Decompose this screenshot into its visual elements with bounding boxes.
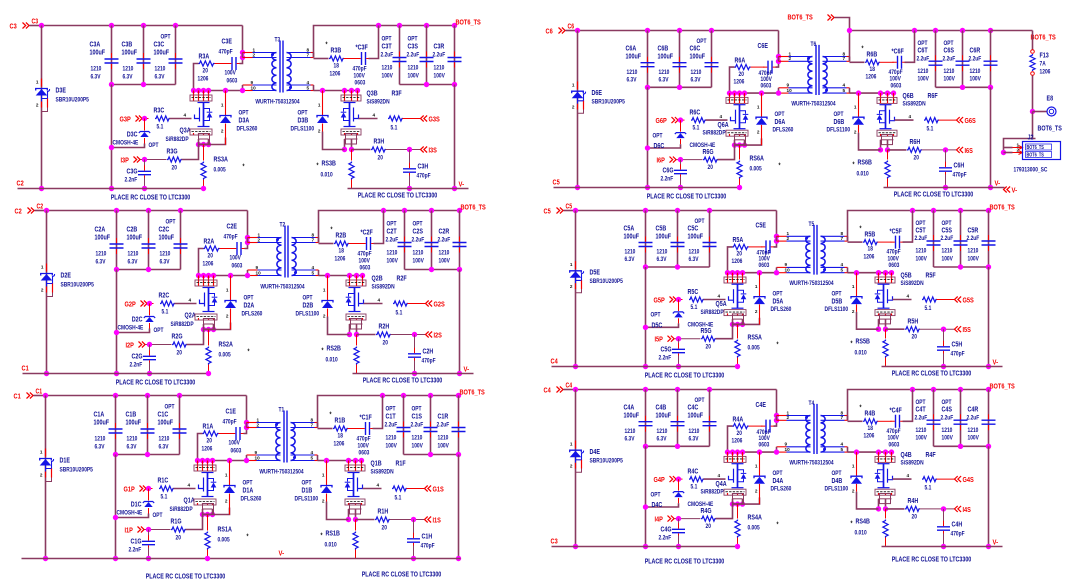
svg-text:1210: 1210: [413, 250, 424, 257]
svg-text:1210: 1210: [942, 248, 953, 255]
svg-text:2: 2: [789, 56, 792, 62]
svg-text:2: 2: [221, 129, 224, 135]
svg-text:C3S: C3S: [408, 42, 419, 51]
fuse F13 7A 1206: [1032, 31, 1034, 50]
svg-text:I4P: I4P: [655, 515, 663, 524]
svg-text:I3P: I3P: [121, 156, 129, 165]
svg-text:SiS892DN: SiS892DN: [901, 280, 924, 287]
svg-text:I6S: I6S: [965, 146, 973, 155]
svg-text:100uF: 100uF: [658, 51, 674, 60]
transistor Q5B SiS892DN: [876, 270, 881, 275]
transistor Q3A SiR882DP: [191, 88, 196, 93]
svg-text:C5T: C5T: [916, 226, 927, 235]
svg-text:PLACE RC CLOSE TO LTC3300: PLACE RC CLOSE TO LTC3300: [894, 190, 974, 199]
svg-text:DFLS260: DFLS260: [771, 306, 792, 313]
svg-text:G3S: G3S: [429, 115, 440, 124]
wire C2 top bus: [47, 210, 248, 212]
net entry G6S: [957, 117, 964, 123]
svg-text:I1S: I1S: [433, 516, 441, 525]
svg-text:DFLS260: DFLS260: [241, 496, 262, 503]
wire snubber return: [905, 31, 915, 63]
capacitor C5F 470pF 100V 0603: [878, 241, 892, 243]
diode D4A DFLS260 OPT: [757, 449, 762, 454]
node source junctions: [733, 318, 743, 320]
wire snubber return: [373, 396, 383, 429]
svg-text:D5E: D5E: [590, 268, 601, 277]
svg-text:C5R: C5R: [968, 226, 979, 235]
svg-text:R5C: R5C: [688, 287, 699, 296]
wire gate: [706, 119, 728, 121]
svg-text:C5E: C5E: [756, 221, 767, 230]
svg-text:RS3B: RS3B: [322, 159, 336, 168]
resistor RS6B 0.010: [887, 150, 889, 160]
svg-text:D3C: D3C: [127, 130, 138, 139]
resistor R5G 20: [701, 336, 716, 341]
svg-text:*C2F: *C2F: [361, 228, 374, 237]
svg-text:1210: 1210: [95, 436, 106, 443]
net entry I6S: [957, 147, 964, 153]
svg-text:100uF: 100uF: [122, 48, 138, 57]
resistor R4A 20 1206: [728, 426, 733, 452]
svg-text:470pF: 470pF: [357, 436, 371, 443]
wire secondary switch node: [848, 451, 892, 453]
wire gate: [704, 299, 726, 301]
svg-text:9: 9: [785, 262, 788, 268]
wire cap bottom rail: [646, 266, 710, 268]
svg-text:R3A: R3A: [199, 52, 210, 61]
capacitor C3S 2.2uF OPT: [426, 26, 428, 85]
diode D6E SBR10U200P5: [577, 82, 579, 90]
svg-text:6.3V: 6.3V: [657, 256, 667, 263]
svg-text:*: *: [321, 533, 323, 540]
capacitor C3H 470pF: [409, 150, 411, 167]
wire right rail to V-: [454, 85, 456, 189]
wire source to D2A: [214, 323, 231, 330]
svg-text:Q6A: Q6A: [718, 120, 730, 129]
svg-text:0603: 0603: [759, 441, 770, 448]
svg-text:WURTH-750312504: WURTH-750312504: [789, 280, 833, 287]
svg-text:470pF: 470pF: [358, 251, 372, 258]
svg-text:I5S: I5S: [963, 325, 971, 334]
svg-text:C1R: C1R: [438, 412, 449, 421]
capacitor C2B 100uF: [148, 211, 150, 270]
wire right rail to V-: [988, 446, 990, 546]
svg-text:*C1F: *C1F: [360, 413, 373, 422]
svg-text:2.2uF: 2.2uF: [381, 52, 394, 59]
svg-text:*: *: [326, 42, 328, 49]
wire snubber to primary top: [244, 423, 247, 434]
svg-text:9: 9: [251, 80, 254, 86]
svg-text:20: 20: [737, 251, 743, 258]
svg-text:R2F: R2F: [397, 274, 408, 283]
wire left rail: [575, 211, 577, 367]
svg-text:SiR882DP: SiR882DP: [166, 136, 190, 143]
resistor R4F 5.1: [893, 478, 912, 480]
svg-text:C1T: C1T: [386, 412, 397, 421]
diode D1E SBR10U200P5: [45, 449, 47, 457]
transistor Q1A SiR882DP: [195, 458, 200, 463]
svg-text:R5A: R5A: [733, 235, 744, 244]
resistor R6C 5.1: [691, 118, 706, 123]
svg-text:C4S: C4S: [942, 405, 953, 414]
resistor RS1A 0.005: [207, 515, 209, 531]
resistor RS4A 0.005: [737, 504, 739, 518]
svg-text:*: *: [860, 405, 862, 412]
svg-text:20: 20: [706, 343, 712, 350]
svg-text:5.1: 5.1: [693, 125, 700, 132]
svg-text:100V: 100V: [382, 73, 394, 80]
svg-text:0.010: 0.010: [326, 357, 338, 364]
svg-text:1210: 1210: [657, 428, 668, 435]
svg-text:100V: 100V: [386, 443, 398, 450]
svg-text:0.005: 0.005: [748, 345, 760, 352]
svg-text:100V: 100V: [944, 76, 956, 83]
wire primary switch node: [199, 275, 248, 277]
capacitor C5R 2.2uF: [988, 211, 990, 268]
svg-text:5.1: 5.1: [162, 309, 169, 316]
svg-text:D4E: D4E: [590, 447, 601, 456]
svg-text:1206: 1206: [334, 441, 345, 448]
svg-text:2: 2: [852, 309, 855, 315]
capacitor C3F 470pF 100V 0603: [344, 58, 358, 60]
svg-text:2: 2: [322, 499, 325, 505]
wire output cap rail: [400, 84, 455, 86]
resistor R2C 5.1: [160, 301, 175, 306]
svg-text:2.2uF: 2.2uF: [407, 52, 420, 59]
svg-text:D5A: D5A: [773, 296, 784, 305]
wire secondary switch node: [850, 92, 894, 94]
svg-text:C4H: C4H: [952, 520, 963, 529]
svg-text:1210: 1210: [412, 435, 423, 442]
svg-text:6.3V: 6.3V: [627, 77, 637, 84]
svg-text:1210: 1210: [382, 65, 393, 72]
svg-text:5: 5: [312, 270, 315, 276]
svg-text:470pF: 470pF: [353, 66, 367, 73]
capacitor C5B 100uF: [677, 211, 679, 268]
svg-text:Q6B: Q6B: [903, 91, 914, 100]
svg-text:20: 20: [706, 523, 712, 530]
capacitor C4S 2.2uF OPT: [960, 390, 962, 447]
svg-text:4: 4: [189, 298, 192, 304]
svg-text:G2S: G2S: [434, 300, 445, 309]
wire BOT6_TS bus: [848, 211, 989, 242]
svg-text:5.1: 5.1: [161, 494, 168, 501]
resistor R2G 20: [172, 342, 187, 347]
wire gate: [174, 488, 196, 490]
svg-text:1210: 1210: [155, 66, 166, 73]
svg-text:10: 10: [255, 455, 260, 461]
net entry I3S: [421, 147, 428, 153]
svg-text:C1E: C1E: [226, 407, 237, 416]
svg-text:470pF: 470pF: [951, 351, 965, 358]
capacitor C5E 470pF 100V 0603: [749, 246, 763, 248]
svg-text:*: *: [247, 534, 249, 541]
resistor R3G 20: [167, 157, 182, 162]
svg-text:R1C: R1C: [158, 476, 169, 485]
net entry I2S: [426, 332, 433, 338]
svg-text:F13: F13: [1040, 51, 1049, 60]
svg-text:6.3V: 6.3V: [160, 259, 170, 266]
wire right rail to V-: [458, 455, 460, 559]
svg-text:Q4A: Q4A: [716, 479, 728, 488]
svg-text:20: 20: [382, 525, 388, 532]
wire BOT6_TS bus: [314, 26, 455, 58]
svg-text:0603: 0603: [761, 82, 772, 89]
net entry I1S: [425, 517, 432, 523]
svg-text:10: 10: [251, 85, 256, 91]
svg-text:RS4B: RS4B: [856, 517, 870, 526]
svg-text:1: 1: [41, 265, 44, 271]
wire left rail: [575, 390, 577, 547]
svg-text:C6H: C6H: [954, 161, 965, 170]
svg-text:*: *: [851, 521, 853, 528]
svg-text:1210: 1210: [689, 428, 700, 435]
transistor Q4A SiR882DP: [725, 449, 730, 454]
wire C3 bottom bus: [552, 546, 738, 548]
svg-text:100uF: 100uF: [159, 233, 175, 242]
capacitor C3E 470pF 100V 0603: [215, 63, 229, 65]
wire V- bottom bus: [22, 558, 461, 560]
svg-text:*C5F: *C5F: [890, 227, 903, 236]
svg-text:100uF: 100uF: [626, 51, 642, 60]
resistor R6H 20: [888, 149, 907, 151]
svg-text:5: 5: [311, 455, 314, 461]
capacitor C6S 2.2uF OPT: [962, 31, 964, 88]
node C3 junctions on top bus: [39, 23, 44, 28]
svg-text:C6S: C6S: [944, 46, 955, 55]
svg-text:1: 1: [221, 103, 224, 109]
svg-text:0603: 0603: [360, 265, 371, 272]
resistor R3F 5.1: [359, 118, 378, 120]
svg-text:100V: 100V: [970, 76, 982, 83]
svg-text:7: 7: [841, 415, 844, 421]
wire to fuse: [991, 30, 1033, 32]
capacitor C1B 100uF: [147, 396, 149, 455]
svg-text:DFLS1100: DFLS1100: [825, 486, 849, 493]
svg-text:0603: 0603: [359, 450, 370, 457]
svg-text:2.2nF: 2.2nF: [661, 176, 674, 183]
svg-text:Q2B: Q2B: [372, 274, 383, 283]
wire snubber return: [369, 26, 379, 59]
svg-text:1: 1: [572, 82, 575, 88]
svg-text:SiR882DP: SiR882DP: [701, 309, 725, 316]
svg-text:C4: C4: [544, 386, 552, 395]
svg-text:7A: 7A: [1040, 61, 1046, 68]
svg-text:SiS892DN: SiS892DN: [367, 99, 390, 106]
svg-text:RS5A: RS5A: [748, 333, 763, 342]
svg-text:PLACE RC CLOSE TO LTC3300: PLACE RC CLOSE TO LTC3300: [358, 191, 438, 200]
svg-text:1: 1: [854, 105, 857, 111]
svg-text:1210: 1210: [91, 66, 102, 73]
svg-text:I2S: I2S: [434, 331, 442, 340]
svg-text:10: 10: [256, 270, 261, 276]
svg-text:1210: 1210: [942, 427, 953, 434]
svg-text:DFLS1100: DFLS1100: [295, 496, 319, 503]
wire primary switch node: [194, 90, 243, 92]
wire C1 top bus: [46, 395, 247, 397]
svg-text:2.2nF: 2.2nF: [125, 177, 138, 184]
svg-text:1210: 1210: [625, 249, 636, 256]
svg-text:0.010: 0.010: [855, 350, 867, 357]
svg-text:1: 1: [757, 105, 760, 111]
diode D2C CMOSH-4E: [149, 304, 151, 316]
svg-text:20: 20: [208, 253, 214, 260]
svg-text:20: 20: [914, 155, 920, 162]
svg-text:0.010: 0.010: [325, 542, 337, 549]
svg-text:PLACE RC CLOSE TO LTC3300: PLACE RC CLOSE TO LTC3300: [146, 572, 226, 581]
wire source to D1A: [213, 508, 230, 515]
svg-text:2.2uF: 2.2uF: [967, 235, 980, 242]
svg-text:1: 1: [852, 284, 855, 290]
wire left rail: [41, 26, 43, 189]
svg-text:DFLS1100: DFLS1100: [296, 311, 320, 318]
svg-text:100V: 100V: [408, 73, 420, 80]
svg-text:D2A: D2A: [244, 301, 255, 310]
wire V- bottom bus: [348, 188, 469, 190]
svg-text:0603: 0603: [227, 78, 238, 85]
svg-text:OPT: OPT: [651, 312, 661, 319]
svg-text:1206: 1206: [864, 433, 875, 440]
svg-text:D3B: D3B: [298, 116, 309, 125]
wire right rail to V-: [990, 87, 992, 187]
svg-text:0.005: 0.005: [748, 525, 760, 532]
svg-text:1210: 1210: [387, 250, 398, 257]
node source junctions: [735, 139, 745, 141]
wire source to D5A: [743, 318, 760, 325]
svg-text:2: 2: [755, 309, 758, 315]
svg-text:4: 4: [718, 473, 721, 479]
wire cap return rail: [645, 446, 647, 546]
svg-text:1210: 1210: [944, 68, 955, 75]
capacitor C6A 100uF: [647, 31, 649, 88]
svg-text:DFLS260: DFLS260: [237, 126, 258, 133]
svg-text:20: 20: [177, 350, 183, 357]
svg-text:2.2uF: 2.2uF: [385, 422, 398, 429]
svg-text:6.3V: 6.3V: [123, 74, 133, 81]
svg-text:BOT6_TS: BOT6_TS: [990, 382, 1015, 391]
svg-text:1206: 1206: [866, 74, 877, 81]
svg-text:2.2uF: 2.2uF: [437, 422, 450, 429]
node source junctions: [203, 508, 213, 510]
svg-text:C5H: C5H: [952, 340, 963, 349]
wire output cap rail: [405, 269, 460, 271]
capacitor C5H 470pF: [943, 329, 945, 344]
svg-text:C4: C4: [551, 357, 559, 366]
test point E8: [1033, 111, 1047, 113]
svg-text:6.3V: 6.3V: [127, 444, 137, 451]
svg-text:1210: 1210: [439, 250, 450, 257]
svg-text:I4S: I4S: [963, 505, 971, 514]
svg-text:R5H: R5H: [908, 316, 919, 325]
svg-text:100V: 100V: [968, 255, 980, 262]
svg-text:5: 5: [307, 85, 310, 91]
svg-text:I6P: I6P: [657, 156, 665, 165]
wire V- bottom bus: [882, 366, 1003, 368]
svg-text:*C4F: *C4F: [890, 406, 903, 415]
svg-text:20: 20: [172, 165, 178, 172]
svg-text:BOT6_TS: BOT6_TS: [990, 203, 1015, 212]
svg-text:1210: 1210: [659, 69, 670, 76]
svg-text:1: 1: [570, 262, 573, 268]
svg-text:1210: 1210: [96, 251, 107, 258]
svg-text:BOT6_TS: BOT6_TS: [1031, 33, 1056, 42]
diode D2A DFLS260 OPT: [228, 273, 233, 278]
resistor R3H 20: [352, 149, 371, 151]
capacitor C1G 2.2nF: [148, 530, 150, 540]
svg-text:9: 9: [785, 442, 788, 448]
capacitor C2A 100uF: [116, 211, 118, 270]
capacitor C2S 2.2uF OPT: [431, 211, 433, 270]
wire cap bottom rail: [648, 86, 712, 88]
svg-text:D5C: D5C: [652, 320, 663, 329]
svg-text:2.2uF: 2.2uF: [969, 55, 982, 62]
svg-text:9: 9: [787, 83, 790, 89]
resistor R5B 18 1206: [848, 241, 863, 243]
svg-text:6.3V: 6.3V: [625, 436, 635, 443]
svg-text:470pF: 470pF: [224, 234, 238, 241]
svg-text:D2E: D2E: [61, 271, 72, 280]
wire output cap rail: [936, 86, 991, 88]
resistor RS2A 0.005: [208, 330, 210, 346]
svg-text:470pF: 470pF: [951, 531, 965, 538]
svg-text:4: 4: [307, 80, 310, 86]
svg-text:SBR10U200P5: SBR10U200P5: [60, 467, 94, 474]
svg-text:1: 1: [322, 473, 325, 479]
wire to source: [182, 145, 199, 160]
svg-text:100V: 100V: [354, 73, 366, 80]
wire secondary switch node: [848, 272, 892, 274]
svg-text:PLACE RC CLOSE TO LTC3300: PLACE RC CLOSE TO LTC3300: [111, 193, 191, 202]
svg-text:V-: V-: [464, 365, 470, 374]
resistor R6A 20 1206: [730, 67, 735, 93]
wire secondary switch node: [318, 460, 362, 462]
svg-text:C1S: C1S: [412, 412, 423, 421]
resistor R5A 20 1206: [728, 247, 733, 273]
svg-text:I1P: I1P: [125, 526, 133, 535]
capacitor C5T 2.2uF OPT: [933, 211, 935, 268]
svg-text:SiR882DP: SiR882DP: [171, 321, 195, 328]
svg-text:2: 2: [318, 129, 321, 135]
svg-text:4: 4: [184, 113, 187, 119]
resistor R2F 5.1: [364, 303, 383, 305]
svg-text:7: 7: [841, 236, 844, 242]
svg-text:R1F: R1F: [396, 459, 407, 468]
svg-text:*: *: [248, 349, 250, 356]
net entry G4S: [955, 476, 962, 482]
svg-text:SiR882DP: SiR882DP: [701, 489, 725, 496]
wire fuse to node: [1032, 76, 1034, 112]
capacitor C1R 2.2uF: [458, 396, 460, 455]
diode D4E SBR10U200P5: [575, 441, 577, 449]
svg-text:470pF: 470pF: [953, 172, 967, 179]
svg-text:BOT6_TS: BOT6_TS: [460, 388, 485, 397]
svg-text:R6H: R6H: [910, 137, 921, 146]
wire output cap rail: [934, 445, 989, 447]
svg-text:9: 9: [255, 450, 258, 456]
svg-text:1210: 1210: [434, 65, 445, 72]
svg-text:Q3A: Q3A: [180, 126, 192, 135]
capacitor C6C 100uF: [711, 31, 713, 88]
svg-text:V-: V-: [993, 538, 999, 547]
resistor R3C 5.1: [155, 116, 170, 121]
diode D4B DFLS1100: [854, 449, 859, 454]
wire C1 bottom bus: [23, 373, 209, 375]
diode D5C CMOSH-4E: [678, 300, 680, 312]
svg-text:10: 10: [787, 88, 792, 94]
svg-text:1210: 1210: [657, 249, 668, 256]
svg-text:6.3V: 6.3V: [691, 77, 701, 84]
svg-text:18: 18: [870, 66, 876, 73]
